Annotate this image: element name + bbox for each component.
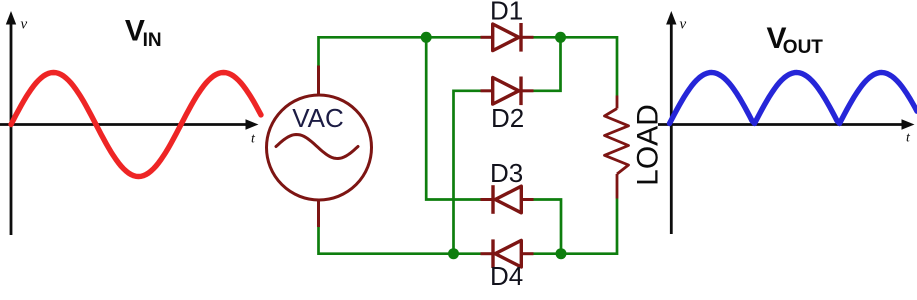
wire J1 down to D3 cathode row [426, 37, 480, 199]
svg-text:D3: D3 [490, 158, 523, 188]
resistor LOAD leads (red) [616, 96, 619, 109]
svg-text:t: t [906, 131, 911, 146]
VAC sine symbol [276, 135, 358, 159]
input sine wave [11, 73, 261, 177]
wire J2 down to D2 cathode [534, 37, 561, 91]
output rectified wave [670, 73, 917, 124]
V_IN graph horizontal axis [0, 119, 259, 129]
node junction J3 bottom-left [448, 248, 459, 259]
resistor LOAD zigzag [605, 109, 629, 175]
wire VAC bottom to bottom rail [319, 227, 481, 254]
diode D4 [481, 239, 534, 268]
wire VAC bottom lead (red) [317, 200, 320, 228]
wire D4 anode to bottom-right corner up to load [534, 199, 618, 254]
svg-text:t: t [251, 132, 256, 147]
V_OUT graph vertical axis [666, 11, 676, 234]
wire VAC top lead (red) [317, 66, 320, 96]
wire VAC top to top rail [319, 37, 481, 65]
diode D3 [481, 185, 534, 214]
V_IN graph vertical axis [6, 11, 16, 235]
svg-text:D1: D1 [490, 0, 523, 26]
node junction J2 top-right [555, 32, 566, 43]
svg-text:IN: IN [143, 30, 162, 51]
svg-text:D2: D2 [491, 103, 524, 133]
svg-text:D4: D4 [490, 261, 523, 291]
diode D1 [481, 23, 534, 52]
wire D2 anode down to bottom rail [454, 91, 481, 254]
svg-text:v: v [680, 17, 687, 33]
svg-text:OUT: OUT [783, 37, 824, 58]
node junction J1 top-left [421, 32, 432, 43]
svg-text:VAC: VAC [292, 103, 344, 133]
diode D2 [481, 77, 534, 106]
node junction J4 bottom-right [556, 248, 567, 259]
svg-text:v: v [21, 17, 28, 33]
svg-text:LOAD: LOAD [632, 104, 665, 186]
wire D3 anode down to J4 [534, 200, 562, 254]
wire D1 cathode to top-right corner [534, 37, 618, 95]
V_OUT graph horizontal axis [658, 119, 915, 129]
VAC source circle U1 [267, 95, 372, 200]
